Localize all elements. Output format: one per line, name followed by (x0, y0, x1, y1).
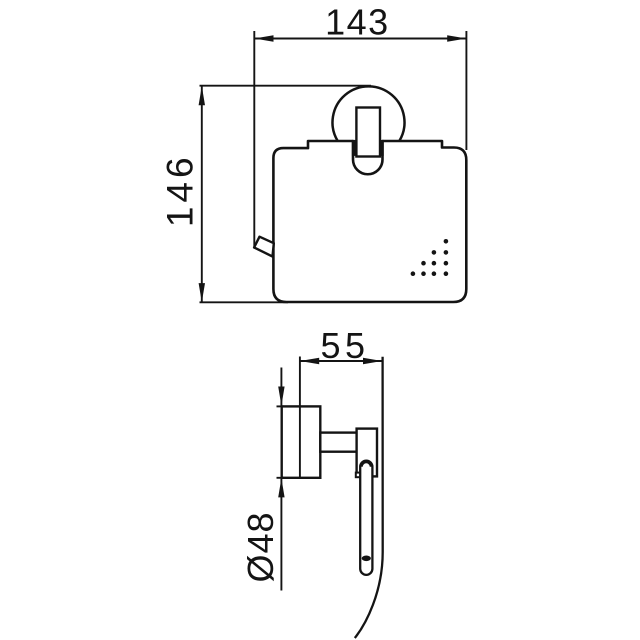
svg-text:143: 143 (325, 2, 390, 43)
svg-text:Ø48: Ø48 (240, 511, 281, 582)
svg-text:146: 146 (160, 153, 201, 227)
svg-text:55: 55 (320, 325, 369, 366)
